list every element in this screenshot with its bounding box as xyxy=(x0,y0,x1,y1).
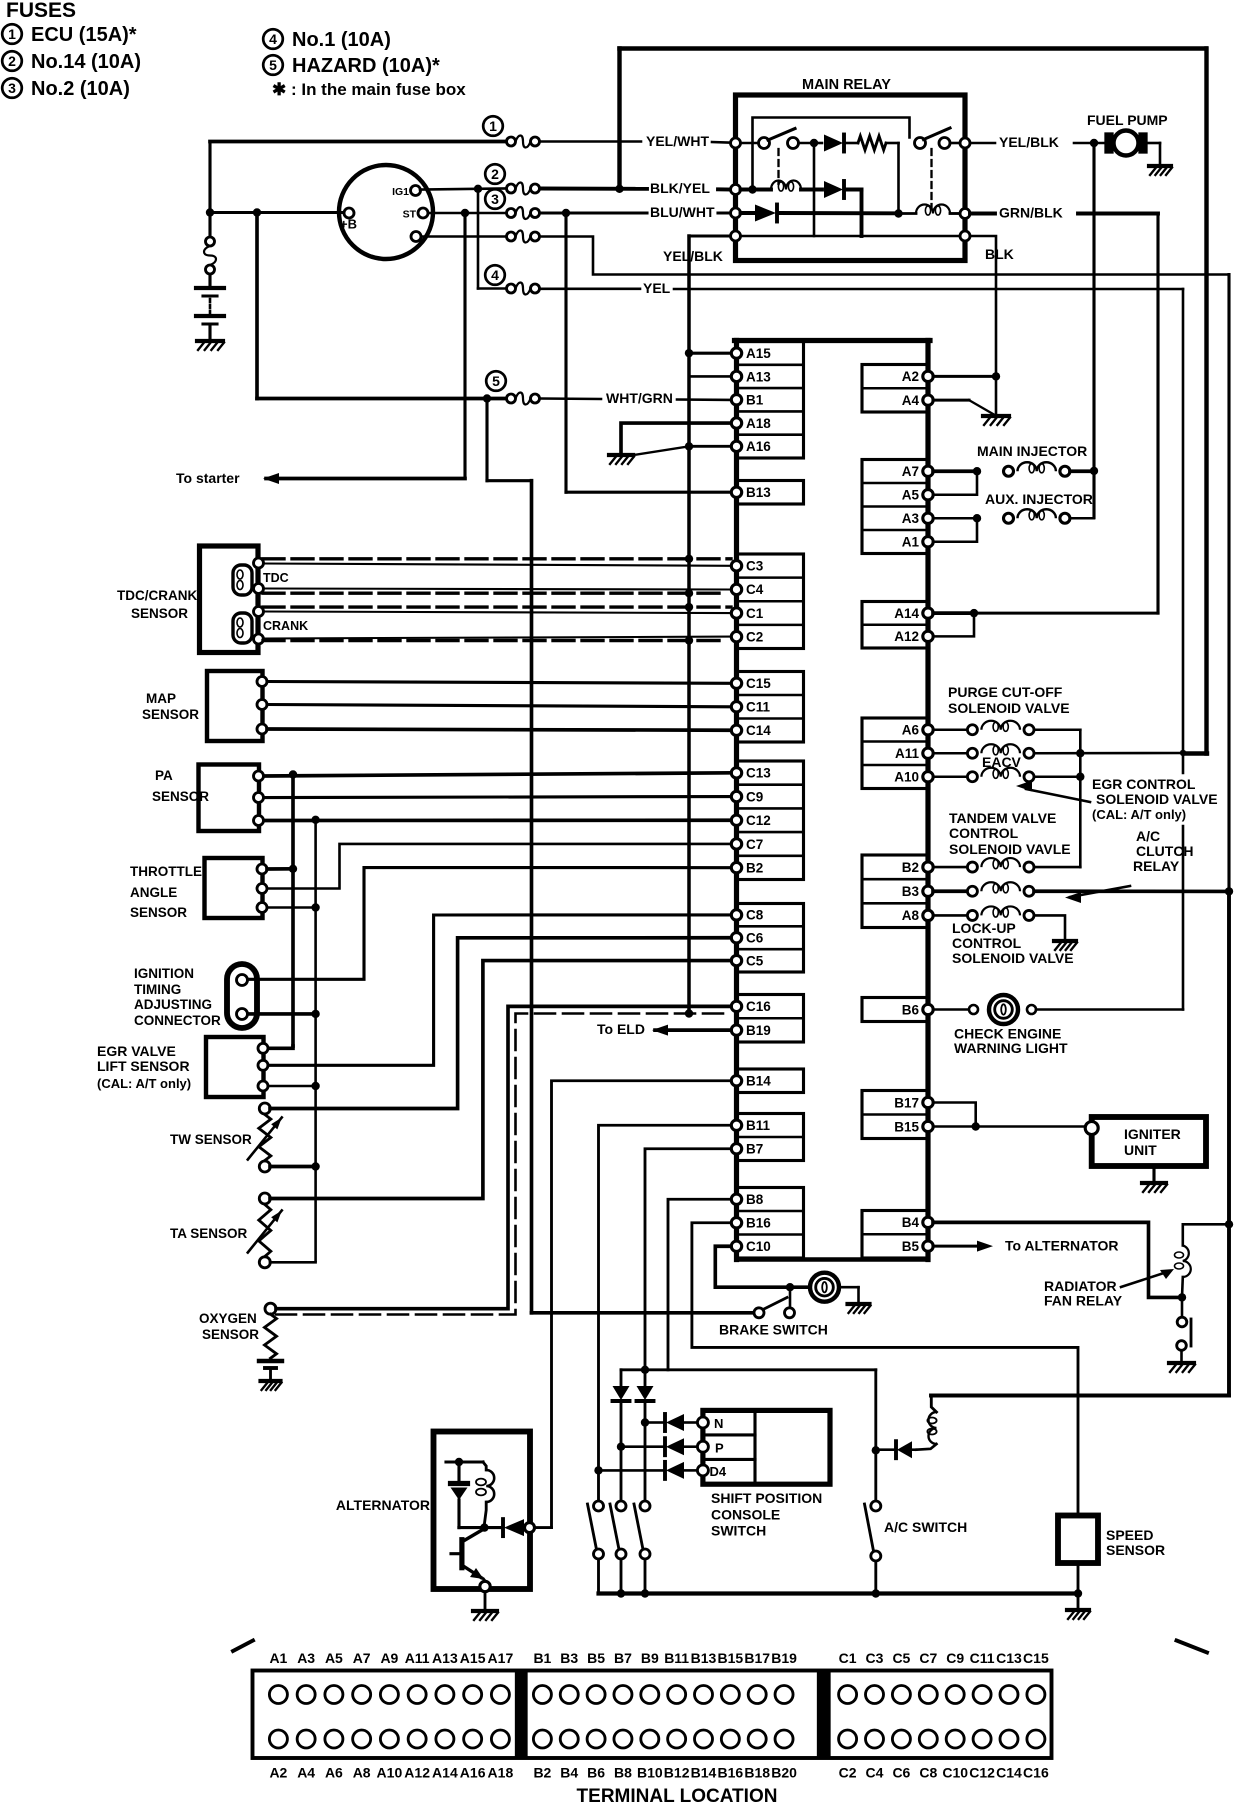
arrow radiator fan relay label xyxy=(1121,1271,1170,1287)
svg-text:IG1: IG1 xyxy=(392,186,409,198)
svg-text:C5: C5 xyxy=(746,953,764,968)
wire +B feed xyxy=(210,211,343,214)
svg-text:A11: A11 xyxy=(895,746,920,761)
svg-text:4: 4 xyxy=(269,31,277,47)
svg-text:B2: B2 xyxy=(746,860,763,875)
svg-text:GRN/BLK: GRN/BLK xyxy=(999,205,1063,221)
node relay coil1 left xyxy=(748,185,756,193)
wire MAP to C14 xyxy=(267,729,731,730)
wire PA to C9 xyxy=(264,795,731,799)
TDC/CRANK sensor pins xyxy=(254,558,264,568)
wire A1 joins A3 xyxy=(933,518,977,542)
wire +B to fuse 5 xyxy=(255,213,259,399)
svg-text:A3: A3 xyxy=(902,511,920,526)
svg-text:B15: B15 xyxy=(718,1650,744,1666)
EGR sensor pins xyxy=(258,1043,268,1053)
TDC pickup coil xyxy=(233,565,252,595)
wire TW ground xyxy=(270,1165,316,1169)
ignition switch pin 4 xyxy=(411,232,421,242)
svg-text:A/C SWITCH: A/C SWITCH xyxy=(884,1519,967,1535)
svg-text:A9: A9 xyxy=(380,1650,398,1666)
svg-text:To starter: To starter xyxy=(176,470,240,486)
alternator transistor xyxy=(459,1540,464,1568)
svg-text:C6: C6 xyxy=(892,1765,910,1781)
console switch 2 xyxy=(616,1501,626,1511)
wire B2 row from ignition-timing branch xyxy=(249,868,731,980)
svg-text:SHIFT POSITION: SHIFT POSITION xyxy=(711,1490,822,1506)
ignition timing adjusting connector xyxy=(227,964,257,1028)
wire battery vertical xyxy=(208,142,211,237)
svg-text:UNIT: UNIT xyxy=(1124,1142,1157,1158)
wire B8 to A/C switch xyxy=(668,1199,731,1370)
svg-text:No.14 (10A): No.14 (10A) xyxy=(31,51,141,73)
alternator output diode xyxy=(501,1519,505,1536)
wire YEL xyxy=(540,287,640,290)
svg-text:A13: A13 xyxy=(432,1650,458,1666)
ground at lock-up solenoid xyxy=(1054,939,1076,943)
wire to starter xyxy=(463,213,466,479)
wire YEL/BLK right vertical xyxy=(1227,275,1230,892)
svg-text:SENSOR: SENSOR xyxy=(1106,1542,1165,1558)
wire C10 to brake warning light xyxy=(715,1246,810,1287)
wire oxygen signal to C16 xyxy=(276,1006,731,1308)
svg-text:(CAL: A/T only): (CAL: A/T only) xyxy=(97,1076,191,1091)
svg-text:4: 4 xyxy=(491,267,499,283)
wire oxygen shield (dashed) xyxy=(276,1014,728,1315)
svg-text:A8: A8 xyxy=(902,908,920,923)
svg-text:A1: A1 xyxy=(902,535,920,550)
terminal pins row C xyxy=(839,1686,857,1704)
svg-text:C8: C8 xyxy=(919,1765,937,1781)
CRANK pickup coil xyxy=(233,613,252,643)
wire TA ground to chain xyxy=(270,1261,316,1264)
wire YEL/BLK from fuse xyxy=(540,237,1229,275)
node A3/A1 junction xyxy=(973,514,981,522)
wire EGR signal to C8 xyxy=(268,915,731,1065)
svg-text:B3: B3 xyxy=(560,1650,578,1666)
svg-text:TW SENSOR: TW SENSOR xyxy=(170,1132,252,1147)
svg-text:1: 1 xyxy=(489,118,497,134)
svg-text:C6: C6 xyxy=(746,931,764,946)
node fuel pump junction xyxy=(1090,139,1098,147)
svg-text:A3: A3 xyxy=(297,1650,315,1666)
svg-text:3: 3 xyxy=(491,191,499,207)
ignition switch pin ST xyxy=(418,208,428,218)
wire CRANK shield (dashed) row 3 xyxy=(263,605,731,608)
svg-text:B5: B5 xyxy=(587,1650,605,1666)
svg-text:C15: C15 xyxy=(746,676,771,691)
svg-text:LOCK-UP: LOCK-UP xyxy=(952,920,1016,936)
svg-text:B7: B7 xyxy=(614,1650,632,1666)
svg-text:C9: C9 xyxy=(946,1650,964,1666)
wire EGR ground xyxy=(268,1085,316,1088)
wire TDC shield (dashed) row 1 xyxy=(263,557,731,560)
wire VCC chain vertical xyxy=(291,775,295,1047)
svg-text:A/C: A/C xyxy=(1136,828,1160,844)
ECU top edge xyxy=(735,338,931,343)
A/C switch xyxy=(871,1501,881,1511)
wire to A13 xyxy=(689,375,730,378)
svg-text:RELAY: RELAY xyxy=(1133,858,1180,874)
svg-text:B16: B16 xyxy=(718,1765,744,1781)
svg-text:P: P xyxy=(715,1441,724,1456)
ground at oxygen sensor xyxy=(261,1379,281,1383)
svg-text:B4: B4 xyxy=(560,1765,578,1781)
PA sensor pins xyxy=(254,771,264,781)
ECU pin group A14/A12 xyxy=(862,602,928,649)
fuse legend item 5 HAZARD (10A)* xyxy=(263,55,283,75)
alternator field coil xyxy=(483,1462,486,1470)
svg-text:C10: C10 xyxy=(942,1765,968,1781)
A/C clutch diode xyxy=(880,1448,894,1451)
node BLK/YEL to top bus xyxy=(615,185,623,193)
node ignition timing ground junction xyxy=(311,1010,319,1018)
node speed sensor ground junction xyxy=(1074,1589,1082,1597)
wire ignition timing pin2 to ground chain xyxy=(248,1012,316,1016)
svg-text:CONTROL: CONTROL xyxy=(949,825,1019,841)
main relay coil 1 xyxy=(741,188,772,192)
wire B5 to alternator arrow xyxy=(933,1245,980,1248)
igniter unit box xyxy=(1092,1117,1206,1166)
main relay inner feed wire xyxy=(753,118,910,190)
fuse legend item 3 No.2 (10A) xyxy=(2,78,22,98)
wire B14 to alternator xyxy=(552,1081,732,1528)
svg-text:A14: A14 xyxy=(432,1765,458,1781)
svg-text:B17: B17 xyxy=(894,1095,919,1110)
node IG1 branch xyxy=(474,185,482,193)
ECU pin group B6 xyxy=(862,998,928,1022)
svg-text:SOLENOID VALVE: SOLENOID VALVE xyxy=(952,950,1074,966)
wire A4 to ground diagonal xyxy=(933,399,969,402)
svg-text:C3: C3 xyxy=(746,559,764,574)
svg-text:SENSOR: SENSOR xyxy=(130,905,187,920)
svg-text:CLUTCH: CLUTCH xyxy=(1136,843,1194,859)
svg-text:BRAKE SWITCH: BRAKE SWITCH xyxy=(719,1322,828,1338)
svg-text:CONSOLE: CONSOLE xyxy=(711,1507,780,1523)
svg-text:A16: A16 xyxy=(460,1765,486,1781)
svg-text:BLK: BLK xyxy=(985,246,1014,262)
svg-text:FAN RELAY: FAN RELAY xyxy=(1044,1293,1123,1309)
TDC/CRANK sensor box xyxy=(200,546,259,653)
wire TDC signal to C3 xyxy=(263,564,731,566)
wire B6 to warning light xyxy=(933,1008,968,1011)
fusible link at battery xyxy=(206,237,215,246)
svg-text:C9: C9 xyxy=(746,789,763,804)
console switch 1 xyxy=(594,1501,604,1511)
ECU pin group B17/B15 xyxy=(862,1091,928,1139)
wire B15 to igniter unit xyxy=(933,1125,1086,1128)
svg-text:CRANK: CRANK xyxy=(263,619,308,633)
svg-text:TA SENSOR: TA SENSOR xyxy=(170,1226,248,1241)
svg-text:B13: B13 xyxy=(746,485,771,500)
ECU pin group B11/B7 xyxy=(737,1114,804,1161)
svg-text:C16: C16 xyxy=(746,999,771,1014)
svg-text:MAIN RELAY: MAIN RELAY xyxy=(802,77,891,93)
svg-text:B4: B4 xyxy=(902,1215,920,1230)
svg-text:C15: C15 xyxy=(1023,1650,1049,1666)
ECU pin group C8/C6/C5 xyxy=(737,904,804,973)
svg-text:A12: A12 xyxy=(894,629,919,644)
svg-text:A12: A12 xyxy=(404,1765,430,1781)
svg-text:WARNING LIGHT: WARNING LIGHT xyxy=(954,1040,1068,1056)
svg-text:A10: A10 xyxy=(377,1765,403,1781)
node EGR ground junction xyxy=(311,1082,319,1090)
svg-text:CONNECTOR: CONNECTOR xyxy=(134,1013,221,1028)
svg-text:C7: C7 xyxy=(919,1650,937,1666)
radiator fan relay contact xyxy=(1181,1297,1184,1317)
wire fuel pump feed down to injectors xyxy=(1092,143,1095,471)
main relay pin 2 left xyxy=(731,185,741,195)
svg-text:SPEED: SPEED xyxy=(1106,1527,1153,1543)
node A11 YEL junction xyxy=(1180,750,1186,756)
node PA VCC junction xyxy=(289,770,297,778)
radiator fan relay coil xyxy=(1183,1224,1229,1245)
oxygen sensor xyxy=(265,1303,276,1314)
throttle sensor pins xyxy=(257,864,267,874)
svg-text:B16: B16 xyxy=(746,1216,771,1231)
node P junction xyxy=(617,1443,625,1451)
wire B16 to speed sensor xyxy=(692,1223,1078,1516)
svg-text:N: N xyxy=(714,1416,723,1431)
fuse 4 symbol xyxy=(485,265,505,285)
svg-text:A2: A2 xyxy=(902,369,919,384)
node A7/A5 junction xyxy=(973,467,981,475)
svg-text:A4: A4 xyxy=(297,1765,315,1781)
main relay row 4 wire xyxy=(741,235,961,238)
console switch 3 xyxy=(640,1501,650,1511)
wire BLK from relay to A2 ground xyxy=(970,236,996,376)
ECU pin group B4/B5 xyxy=(862,1211,928,1259)
svg-text:SENSOR: SENSOR xyxy=(131,606,188,621)
node +B branch to fuse 5 xyxy=(253,208,261,216)
svg-text:PURGE CUT-OFF: PURGE CUT-OFF xyxy=(948,684,1063,700)
main relay coil 2 xyxy=(899,212,917,215)
node PA ground junction xyxy=(311,816,319,824)
terminal location block xyxy=(233,1641,253,1652)
wire speed sensor to ground bus xyxy=(1077,1563,1080,1594)
svg-text:B7: B7 xyxy=(746,1142,763,1157)
svg-text:B14: B14 xyxy=(746,1074,771,1089)
svg-text:THROTTLE: THROTTLE xyxy=(130,864,202,879)
EGR valve lift sensor box xyxy=(206,1037,264,1097)
svg-text:C12: C12 xyxy=(746,813,771,828)
svg-text:A11: A11 xyxy=(405,1650,430,1666)
node radiator coil feed junction xyxy=(1225,1220,1233,1228)
wire A/C feed down xyxy=(874,1370,877,1506)
fuse legend item 4 No.1 (10A) xyxy=(263,29,283,49)
svg-text:C14: C14 xyxy=(996,1765,1022,1781)
svg-text:2: 2 xyxy=(8,53,16,69)
main relay actuator link 2 (dashed) xyxy=(930,149,932,207)
node B3 YEL/BLK junction xyxy=(1225,887,1233,895)
svg-text:C14: C14 xyxy=(746,723,771,738)
main relay pin 4 right xyxy=(960,231,970,241)
PA sensor box xyxy=(199,765,260,832)
wire CRANK signal to C2 xyxy=(263,637,731,639)
alternator base rail xyxy=(459,1526,502,1529)
wire TDC signal to C4 xyxy=(263,589,731,590)
diode to P pin xyxy=(621,1445,663,1448)
svg-text:SENSOR: SENSOR xyxy=(152,789,209,804)
svg-text:SOLENOID VALVE: SOLENOID VALVE xyxy=(1096,791,1218,807)
wire CRANK shield (dashed) row 4 xyxy=(263,639,723,642)
svg-text:LIFT SENSOR: LIFT SENSOR xyxy=(97,1058,190,1074)
wire B11 to console D4 xyxy=(599,1125,732,1505)
wire TA to C5 xyxy=(270,961,731,1199)
wire top bus right vertical to A11 row xyxy=(1204,49,1208,754)
wire GRN/BLK to A14 xyxy=(970,212,995,216)
svg-text:ST: ST xyxy=(403,209,417,221)
console diode 2 (down) xyxy=(637,1386,654,1400)
svg-text:ANGLE: ANGLE xyxy=(130,885,177,900)
MAP sensor pins xyxy=(257,677,267,687)
svg-text:SENSOR: SENSOR xyxy=(202,1327,259,1342)
svg-text:BLU/WHT: BLU/WHT xyxy=(650,204,715,220)
node A/C diode junction xyxy=(872,1446,880,1454)
svg-text:PA: PA xyxy=(155,768,173,783)
node fuse5/starter junction xyxy=(483,394,491,402)
ground at alternator xyxy=(473,1609,497,1613)
svg-text:A5: A5 xyxy=(902,488,920,503)
wire PA to C13 xyxy=(264,773,731,776)
wire resistor to coil2 xyxy=(897,143,900,214)
node radiator fan junction xyxy=(1178,1293,1186,1301)
wire YEL right vertical xyxy=(1182,289,1185,773)
svg-text:ADJUSTING: ADJUSTING xyxy=(134,997,212,1012)
svg-text:3: 3 xyxy=(8,80,16,96)
svg-text:A17: A17 xyxy=(488,1650,514,1666)
svg-text:B15: B15 xyxy=(894,1119,919,1134)
terminal pins row A xyxy=(269,1686,287,1704)
ECU pin group A6/A11/A10 xyxy=(862,718,928,789)
node BLU/WHT branch to B13 xyxy=(562,209,570,217)
svg-text:A6: A6 xyxy=(902,723,920,738)
svg-text:C3: C3 xyxy=(866,1650,884,1666)
fuse (unnumbered) symbol xyxy=(507,232,516,241)
svg-text:OXYGEN: OXYGEN xyxy=(199,1311,257,1326)
svg-text:A1: A1 xyxy=(269,1650,287,1666)
node A10 common junction xyxy=(1076,773,1084,781)
wire A14 to GRN/BLK xyxy=(933,611,970,615)
svg-text:SENSOR: SENSOR xyxy=(142,707,199,722)
wire relay pin4 to ECU A15/A13 and shield ground rail xyxy=(689,234,730,237)
svg-text:C8: C8 xyxy=(746,908,764,923)
svg-text:AUX. INJECTOR: AUX. INJECTOR xyxy=(985,491,1093,507)
svg-text:B1: B1 xyxy=(746,393,764,408)
ECU pin group B2/B3/A8 right xyxy=(862,855,928,928)
svg-text:C1: C1 xyxy=(746,606,764,621)
ECU pin group C15/C11/C14 xyxy=(737,672,804,743)
svg-text:A18: A18 xyxy=(746,416,771,431)
wire BLU/WHT to main relay xyxy=(540,211,647,214)
svg-text:B2: B2 xyxy=(902,860,919,875)
svg-text:C13: C13 xyxy=(746,766,771,781)
console diode 1 (down) xyxy=(620,1370,623,1386)
diode to N pin xyxy=(650,1421,663,1424)
alternator internal top wire xyxy=(446,1460,483,1463)
alternator box xyxy=(434,1432,531,1590)
MAP sensor box xyxy=(207,671,263,741)
svg-text:To ALTERNATOR: To ALTERNATOR xyxy=(1005,1238,1119,1254)
svg-text:TDC/CRANK: TDC/CRANK xyxy=(117,588,197,603)
svg-text:TIMING: TIMING xyxy=(134,982,181,997)
svg-text:C11: C11 xyxy=(746,700,771,715)
svg-text:A7: A7 xyxy=(902,464,919,479)
ground at radiator fan relay xyxy=(1169,1361,1194,1365)
wire MAP to C15 xyxy=(267,682,731,684)
ECU pin group C13/C9/C12/C7/B2 xyxy=(737,761,804,880)
svg-text:MAP: MAP xyxy=(146,691,176,706)
wire throttle VCC xyxy=(267,867,293,871)
ground at speed sensor xyxy=(1067,1608,1089,1612)
fuse 2 symbol xyxy=(485,164,505,184)
main relay pin 1 right xyxy=(960,138,970,148)
node relay row1 junction xyxy=(810,139,818,147)
svg-text:ECU (15A)*: ECU (15A)* xyxy=(31,24,137,46)
wire TDC shield (dashed) row 2 xyxy=(263,592,723,595)
svg-text:B17: B17 xyxy=(744,1650,770,1666)
main relay actuator link 1 (dashed) xyxy=(777,149,779,184)
wire TW to C6 xyxy=(270,938,731,1109)
svg-text:B9: B9 xyxy=(641,1650,659,1666)
main relay resistor xyxy=(858,136,886,150)
ECU bottom edge xyxy=(737,1257,929,1261)
svg-text:B19: B19 xyxy=(771,1650,797,1666)
ground at fuel pump xyxy=(1149,164,1171,168)
node A11 common junction xyxy=(1076,749,1084,757)
wire fuse5 branch down to brake switch xyxy=(485,399,488,481)
check engine warning light xyxy=(989,995,1018,1024)
svg-text:TANDEM VALVE: TANDEM VALVE xyxy=(949,810,1056,826)
ECU pin group A15/A13/B1/A18/A16 xyxy=(737,342,804,459)
main relay pin 4 left xyxy=(731,231,741,241)
node battery/+B junction xyxy=(206,208,214,216)
svg-text:ALTERNATOR: ALTERNATOR xyxy=(336,1497,430,1513)
alternator emitter pin xyxy=(480,1581,490,1591)
svg-text:A16: A16 xyxy=(746,439,771,454)
ECU right bus xyxy=(925,341,930,1260)
wire throttle signal to C7 xyxy=(267,844,731,889)
wire A3 to aux injector xyxy=(933,517,972,520)
wire ignition pin4 to fuse xyxy=(421,235,506,238)
svg-text:C4: C4 xyxy=(746,582,764,597)
speed sensor box xyxy=(1058,1516,1098,1564)
wire B7 to console diodes xyxy=(645,1149,731,1386)
TA sensor xyxy=(259,1193,270,1204)
svg-text:B2: B2 xyxy=(533,1765,551,1781)
svg-text:SOLENOID VAVLE: SOLENOID VAVLE xyxy=(949,841,1071,857)
arrow A/C clutch relay to B3 coil xyxy=(1070,886,1130,897)
ground at igniter unit xyxy=(1142,1181,1166,1185)
svg-text:A18: A18 xyxy=(488,1765,514,1781)
wire To ELD from B19 xyxy=(655,1028,731,1032)
terminal pins row B xyxy=(533,1686,551,1704)
wire PA to C12 xyxy=(264,818,731,822)
svg-text:B11: B11 xyxy=(746,1118,771,1133)
svg-text:B12: B12 xyxy=(664,1765,690,1781)
fuse legend item 1 ECU (15A)* xyxy=(2,24,22,44)
svg-text:HAZARD (10A)*: HAZARD (10A)* xyxy=(292,55,440,77)
svg-text:A4: A4 xyxy=(902,393,920,408)
wire A7 to main injector xyxy=(933,469,972,473)
wire B4 to radiator fan relay xyxy=(933,1222,1180,1297)
svg-text:YEL/BLK: YEL/BLK xyxy=(663,248,723,264)
EGR control solenoid valve xyxy=(933,775,967,778)
wire diode3 to coil 2 xyxy=(779,211,899,215)
wire battery feed to fuse 1 row xyxy=(210,140,506,144)
svg-text:A8: A8 xyxy=(353,1765,371,1781)
svg-text:No.1 (10A): No.1 (10A) xyxy=(292,29,391,51)
